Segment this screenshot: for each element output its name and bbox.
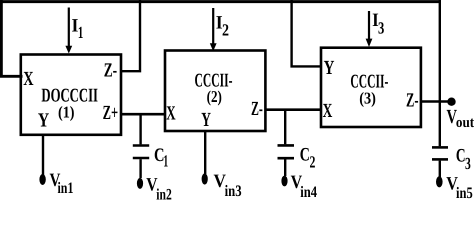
wire: top feedback rail	[0, 0, 441, 3]
wire: Y of U1 down	[42, 135, 44, 175]
svg-text:Z-: Z-	[104, 60, 117, 82]
wire: Z- of U2 to X of U3	[265, 108, 321, 111]
svg-text:2: 2	[310, 153, 316, 172]
capacitor C2	[278, 110, 316, 176]
capacitor C1	[133, 114, 168, 178]
node V_in2	[137, 175, 172, 204]
svg-text:Z-: Z-	[251, 98, 263, 120]
svg-text:X: X	[166, 102, 176, 124]
svg-text:1: 1	[78, 23, 83, 42]
op-amp block U2 CCCII (2)	[165, 51, 265, 132]
op-amp block U1 DOCCCII (1)	[21, 55, 121, 135]
svg-text:in2: in2	[156, 186, 172, 201]
node V_out	[447, 98, 474, 131]
svg-text:Y: Y	[324, 57, 335, 79]
svg-text:in3: in3	[225, 183, 242, 200]
svg-text:(2): (2)	[207, 87, 222, 106]
svg-text:3: 3	[378, 19, 384, 38]
svg-text:3: 3	[465, 154, 471, 173]
svg-text:(3): (3)	[359, 89, 376, 108]
svg-text:in1: in1	[58, 180, 74, 197]
capacitor C3	[432, 145, 471, 177]
wire: Z- of U3 to node Vout	[421, 100, 450, 102]
wire: left feedback drop to X of U1	[0, 0, 23, 78]
node V_in1	[39, 170, 73, 197]
wire: Z- of U1 up to top rail	[120, 0, 141, 71]
svg-text:2: 2	[222, 21, 229, 40]
op-amp block U3 CCCII (3)	[321, 48, 421, 127]
svg-text:Z-: Z-	[406, 89, 419, 111]
node V_in3	[202, 171, 242, 200]
svg-text:in4: in4	[300, 184, 317, 201]
svg-text:Y: Y	[38, 110, 50, 132]
current source I1	[65, 8, 83, 54]
node V_in4	[281, 172, 317, 201]
svg-text:out: out	[456, 115, 474, 131]
svg-text:X: X	[323, 100, 333, 122]
current source I2	[210, 8, 229, 51]
svg-text:in5: in5	[456, 185, 473, 201]
svg-text:Z+: Z+	[103, 102, 119, 124]
svg-text:Y: Y	[201, 109, 211, 131]
svg-text:1: 1	[163, 151, 168, 170]
svg-text:C: C	[300, 144, 310, 165]
svg-text:(1): (1)	[58, 103, 75, 122]
svg-text:X: X	[23, 68, 34, 90]
wire: right feedback riser from top rail down to C3	[439, 0, 441, 146]
wire: Z+ of U1 to X of U2	[121, 113, 166, 116]
wire: Y of U2 down	[204, 131, 206, 174]
current source I3	[366, 10, 385, 47]
wire: top rail down to Y of U3	[290, 0, 322, 68]
node V_in5	[436, 173, 473, 202]
